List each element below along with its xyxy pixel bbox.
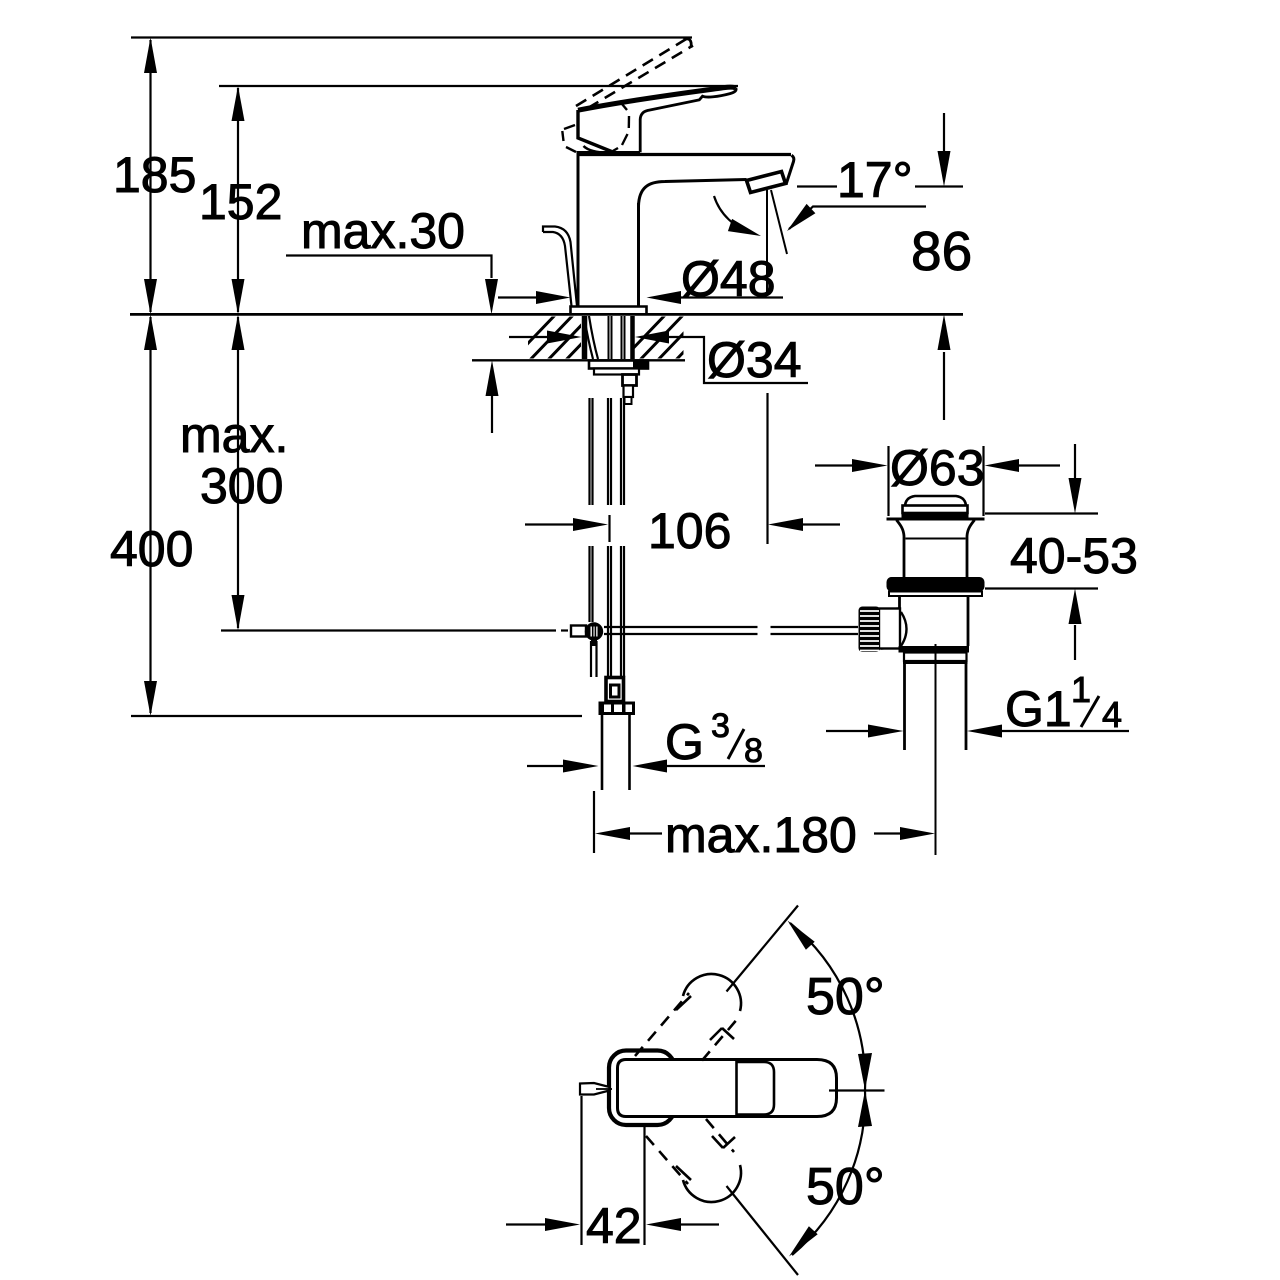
svg-text:Ø34: Ø34 [707, 332, 802, 388]
faucet body top edge [577, 153, 792, 156]
faucet base plate [571, 307, 647, 314]
svg-text:G: G [665, 714, 704, 770]
flexible hose curve in hole [584, 316, 593, 359]
dimension O48 arrows [498, 296, 537, 298]
svg-text:185: 185 [113, 147, 196, 203]
svg-text:50°: 50° [806, 968, 885, 1026]
plan spout end cap [737, 1062, 775, 1115]
faucet spout right face [786, 155, 794, 184]
dimension 106 line [525, 523, 574, 525]
valve tailpipe [903, 664, 906, 750]
dimension 152 line [237, 88, 239, 312]
valve side port connector [879, 609, 900, 649]
spout angle vertical reference line [766, 190, 768, 296]
svg-text:86: 86 [911, 220, 972, 282]
valve top flange line [887, 518, 985, 521]
dimension 42 extension lines [580, 1096, 582, 1245]
shank step [594, 369, 639, 375]
countertop hatching right [620, 312, 722, 362]
svg-text:max.: max. [180, 407, 288, 463]
dimension 185 line [149, 40, 151, 312]
svg-text:8: 8 [744, 732, 763, 770]
svg-text:42: 42 [586, 1198, 642, 1254]
pop-up waste rod at faucet back [543, 227, 577, 307]
extension line top (lever raised level) [131, 36, 692, 38]
dimension 50 degree lower arc [792, 1091, 865, 1256]
svg-text:152: 152 [199, 174, 282, 230]
dimension O63 extension lines [887, 446, 889, 516]
svg-text:40-53: 40-53 [1010, 528, 1138, 584]
mounting hole left wall [582, 316, 588, 359]
dimension 17 degree leader arrow [789, 207, 926, 230]
svg-text:106: 106 [648, 503, 731, 559]
valve rubber gasket [887, 577, 985, 592]
plan faucet body and spout outline [618, 1060, 837, 1117]
faucet body column right edge [637, 203, 640, 306]
plan body-spout divider line [735, 1060, 738, 1116]
plan swivel line lower 50 degrees [727, 1186, 799, 1275]
rod clamp at ball joint [571, 626, 586, 637]
ball joint of pop-up rod [585, 622, 603, 640]
faucet lever blade [640, 88, 736, 152]
faucet lever base rotated (dashed) [562, 101, 629, 153]
G3/8 threaded pipe [601, 715, 604, 791]
valve push cap [905, 496, 966, 507]
dimension G1 1/4 arrows [826, 730, 869, 732]
dimension 400 bottom reference line [131, 715, 582, 717]
valve tailpipe centerline [935, 644, 937, 855]
faucet lever raised (dashed) [576, 39, 693, 109]
valve side port [881, 609, 900, 610]
dimension 42 arrows [506, 1223, 546, 1225]
dimension 86 line lower [943, 352, 945, 420]
svg-text:3: 3 [711, 707, 730, 745]
svg-text:4: 4 [1102, 694, 1122, 735]
svg-text:1: 1 [1071, 669, 1091, 710]
svg-text:max.180: max.180 [665, 807, 857, 863]
mounting hole right wall [630, 316, 635, 359]
dimension max.300 line [237, 317, 239, 628]
horizontal pop-up rod left part [604, 626, 758, 628]
extension line 152 (lever level) [219, 85, 738, 87]
countertop thickness arrow (up) [491, 396, 493, 433]
faucet spout underside curve [639, 180, 747, 207]
countertop hatching left [510, 312, 612, 362]
lift rod below counter [588, 398, 590, 505]
dimension max.180 line [593, 791, 595, 853]
horizontal pop-up rod right part [771, 626, 859, 628]
dimension max.30 leader [286, 256, 492, 279]
plan rotated lever upper (dashed) [635, 993, 739, 1061]
dimension 50 degree upper arc [790, 923, 865, 1090]
spout angle tilted line [771, 190, 787, 254]
dimension 400 line [149, 317, 151, 713]
supply hose 1 below counter [607, 398, 609, 505]
G3/8 connector nut [599, 702, 636, 716]
countertop surface line [130, 313, 963, 316]
spout angle arc with arrow [714, 196, 753, 233]
valve gasket lower ring [889, 592, 982, 597]
knurled adjustment nut [859, 607, 881, 653]
dimension 86 line upper [943, 113, 945, 152]
valve bottom ring [899, 646, 970, 653]
dimension O63 arrows [815, 464, 853, 466]
svg-text:G1: G1 [1005, 681, 1072, 737]
dimension 40-53 arrows [1074, 444, 1076, 479]
dimension 17 degree underline [797, 185, 837, 187]
dimension G3/8 arrows [527, 765, 564, 767]
svg-text:400: 400 [110, 521, 193, 577]
shank flange under counter [589, 361, 648, 369]
faucet aerator (mousseur) [747, 172, 786, 193]
countertop bottom line [472, 359, 685, 361]
dimension O34 arrows and leader [509, 336, 547, 338]
plan swivel line upper 50 degrees [727, 906, 799, 992]
plan lever handle outline [609, 1051, 675, 1126]
G3/8 hose connector block [606, 678, 624, 702]
pop-up rod centerline (max.300 reference) [221, 629, 556, 631]
svg-text:300: 300 [200, 458, 283, 514]
plan rotated lever lower (dashed) [646, 1119, 734, 1184]
valve body [898, 596, 901, 646]
plan horizontal centerline right [829, 1089, 885, 1091]
lift rod and hoses in hole [608, 316, 610, 359]
shank nut lower step [624, 386, 634, 398]
svg-text:Ø63: Ø63 [890, 440, 985, 496]
plan pop-up rod pin [580, 1083, 610, 1095]
supply hose 2 below counter [620, 398, 622, 505]
faucet lever base [578, 110, 612, 152]
shank mounting nut [623, 375, 637, 386]
svg-text:max.30: max.30 [301, 203, 465, 259]
faucet body column left edge [577, 156, 580, 306]
valve trumpet neck [897, 520, 905, 577]
svg-text:17°: 17° [837, 152, 913, 208]
svg-text:50°: 50° [806, 1158, 885, 1216]
dimension 40-53 extension lines [985, 512, 1098, 514]
